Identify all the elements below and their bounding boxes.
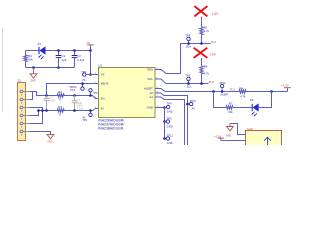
node: IN- pin3/5 [41, 109, 44, 112]
svg-text:D2: D2 [250, 98, 254, 102]
svg-text:IN+: IN+ [101, 97, 106, 101]
svg-text:4.7k: 4.7k [240, 95, 246, 99]
resistor R4 [24, 51, 34, 68]
svg-text:A1: A1 [149, 95, 153, 99]
wire: GND chain vertical [164, 108, 166, 139]
capacitor C2 [72, 51, 85, 68]
capacitor C4 (DNP) [44, 96, 55, 111]
svg-text:IN-: IN- [101, 107, 105, 111]
svg-text:GND: GND [167, 141, 173, 145]
node: IN- pin4 [37, 109, 40, 112]
svg-text:VS: VS [101, 73, 105, 77]
node: TP5 junction [163, 120, 166, 123]
node: C1 bottom [57, 66, 60, 69]
ground flag (J1 pin6) [47, 134, 54, 143]
svg-text:GND: GND [226, 135, 232, 138]
svg-text:+3.3V: +3.3V [281, 84, 289, 88]
svg-text:SDA: SDA [186, 45, 192, 49]
svg-text:VBUS: VBUS [101, 82, 109, 86]
svg-text:10k: 10k [28, 57, 33, 61]
resistor R8 [239, 86, 246, 98]
wire: J1 pin1 to IN+ row [30, 92, 99, 99]
power flag VS (top) [86, 41, 93, 51]
no-ERC cross (SCL 1.8V) [194, 48, 208, 58]
svg-text:PU2: PU2 [230, 88, 236, 92]
wire: IN- row [39, 109, 99, 111]
wire: J1 pin5 to IN- row [30, 111, 43, 124]
net label SCL [187, 85, 193, 89]
wire: LED loop top-left [26, 50, 39, 52]
wire: LED loop top-right [46, 50, 91, 52]
test point TP1 [69, 82, 84, 92]
net label PU2 [230, 88, 236, 92]
wire: J1 pin6 to GND [30, 132, 51, 135]
test point TP5 [165, 117, 173, 129]
svg-text:D1: D1 [38, 42, 42, 46]
svg-text:1.8V: 1.8V [209, 53, 217, 57]
node: VBUS tap [45, 94, 48, 97]
svg-text:GND: GND [167, 124, 173, 128]
net label 1.8V (SCL) [209, 53, 217, 57]
switch SW2 [246, 127, 282, 145]
net label ALERT [220, 92, 229, 96]
node: VS pin junction [89, 73, 92, 76]
svg-text:GND: GND [147, 106, 153, 110]
svg-text:U1: U1 [98, 64, 102, 68]
svg-text:TP1: TP1 [70, 88, 75, 92]
wire: VBUS branch [47, 84, 99, 96]
svg-text:0.1µF: 0.1µF [77, 107, 84, 111]
svg-text:10k: 10k [228, 110, 233, 114]
no-ERC cross (SDA 1.8V) [194, 6, 207, 16]
svg-text:1µF: 1µF [62, 58, 67, 62]
wire: LED loop bottom [26, 67, 75, 69]
net label PU0 [209, 80, 215, 84]
svg-text:GND: GND [47, 141, 53, 144]
node: C1 top [57, 49, 60, 52]
wire: J1 pin2 tie [30, 92, 33, 100]
resistor R7 [226, 102, 233, 114]
svg-text:VS: VS [82, 78, 86, 82]
svg-text:DNP: DNP [49, 99, 55, 103]
power flag +3.3V (right) [281, 84, 291, 92]
wire: VS row to U1 [86, 74, 99, 76]
wire: SCL net [155, 79, 209, 84]
svg-text:1.8V: 1.8V [212, 12, 220, 16]
wire: D2 to +3.3V junction [259, 92, 272, 108]
wire: U1 GND net [155, 107, 165, 109]
wire: VS rail [90, 51, 92, 75]
node: VS rail top [89, 49, 92, 52]
node: IN- C4 [45, 109, 48, 112]
test point TP6 [89, 89, 98, 97]
wire: J1 pin4 to IN- row [30, 111, 39, 116]
capacitor C7 (DNP) [72, 96, 84, 111]
capacitor C1 [56, 51, 67, 68]
svg-text:R6: R6 [204, 65, 208, 69]
wire: +3.3V to SW2 [221, 140, 246, 142]
svg-text:PU0: PU0 [209, 80, 215, 84]
svg-text:TP2: TP2 [82, 118, 87, 122]
svg-text:ALERT: ALERT [220, 92, 229, 96]
svg-text:PU1: PU1 [211, 40, 217, 44]
ground flag (LED loop) [30, 68, 37, 83]
svg-text:TP6: TP6 [93, 91, 98, 95]
svg-text:GND: GND [167, 110, 173, 114]
wire: R7 to D2 [233, 107, 252, 109]
ground flag (SW2) [226, 124, 233, 138]
wire: A1 net [155, 97, 185, 146]
op-amp U1 (INA2xx current monitor) [94, 64, 159, 131]
node: GND stem [32, 66, 35, 69]
svg-text:ALERT: ALERT [144, 87, 153, 91]
svg-text:SCL: SCL [147, 77, 153, 81]
svg-text:A0: A0 [192, 107, 196, 111]
LED D2 [250, 98, 259, 116]
sheet border [2, 28, 4, 112]
wire: ALERT LED branch [214, 92, 227, 108]
wire: A0 net [155, 93, 188, 146]
test point TP2 [82, 109, 92, 122]
resistor R1 [200, 17, 210, 45]
wire: GND to SW2 [230, 124, 246, 135]
svg-text:4.7k: 4.7k [204, 72, 210, 76]
node: IN+ C7 junction [73, 94, 76, 97]
resistor R3 [57, 105, 64, 117]
node: IN- C7 [73, 109, 76, 112]
test point TP12 [219, 81, 226, 93]
node: TP4 junction [163, 106, 166, 109]
test point TP3 [81, 70, 86, 82]
connector J1 [18, 79, 31, 141]
test point TP9 [185, 74, 190, 85]
test point TP4 [165, 102, 173, 114]
svg-text:VS: VS [86, 41, 90, 45]
net label SDA [186, 45, 192, 49]
resistor R2 [57, 90, 64, 102]
power flag +3.3V (bottom) [214, 135, 224, 141]
svg-text:0.1µF: 0.1µF [77, 58, 84, 62]
test point TP10 [186, 99, 196, 111]
net label PU1 [211, 40, 217, 44]
svg-text:4.7k: 4.7k [204, 29, 210, 33]
wire: ALERT net [155, 89, 288, 92]
test point TP11 [163, 134, 173, 146]
svg-text:INA238AIDGSR: INA238AIDGSR [98, 127, 124, 131]
LED D1 [38, 42, 46, 60]
node: C2 top [73, 49, 76, 52]
wire: SDA net [155, 44, 211, 74]
svg-text:SDA: SDA [147, 68, 153, 72]
node: ALERT LED junction [270, 90, 273, 93]
node: R7 branch [212, 90, 215, 93]
net label 1.8V (SDA) [212, 12, 220, 16]
svg-text:GND: GND [30, 80, 36, 83]
svg-text:SCL: SCL [187, 85, 193, 89]
test point TP8 [185, 34, 190, 45]
resistor R6 [200, 58, 210, 85]
wire: J1 pin3 to IN- row [30, 108, 43, 111]
